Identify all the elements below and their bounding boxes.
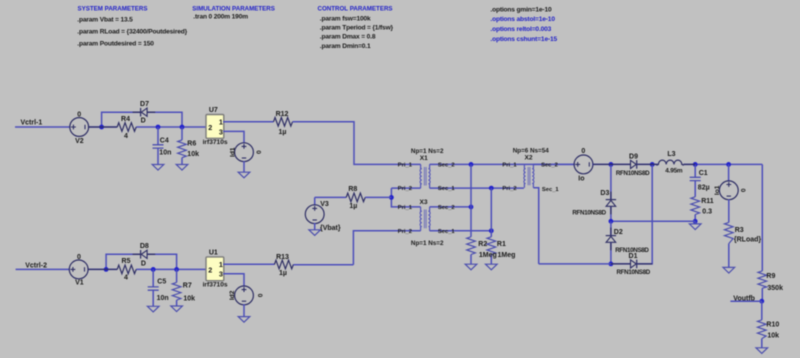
svg-text:R8: R8 (348, 186, 357, 193)
svg-text:1: 1 (219, 118, 223, 127)
svg-text:.options abstol=1e-10: .options abstol=1e-10 (490, 16, 555, 23)
svg-text:2: 2 (208, 123, 212, 132)
svg-text:CONTROL PARAMETERS: CONTROL PARAMETERS (318, 5, 393, 12)
svg-text:1Meg: 1Meg (479, 252, 497, 259)
svg-text:{RLoad}: {RLoad} (734, 237, 762, 244)
svg-text:Pri_2: Pri_2 (398, 186, 412, 192)
svg-text:R11: R11 (701, 198, 714, 205)
svg-text:X3: X3 (419, 199, 427, 206)
svg-text:.param Dmax = 0.8: .param Dmax = 0.8 (320, 34, 376, 41)
svg-text:U1: U1 (209, 250, 218, 257)
svg-text:Sec_2: Sec_2 (438, 163, 455, 169)
svg-text:Sec_1: Sec_1 (438, 186, 456, 192)
svg-text:0: 0 (257, 293, 264, 297)
svg-text:{Vbat}: {Vbat} (320, 225, 341, 232)
svg-text:10k: 10k (767, 332, 779, 339)
svg-text:3: 3 (219, 127, 223, 136)
svg-text:.options cshunt=1e-15: .options cshunt=1e-15 (490, 36, 557, 43)
svg-text:Pri_1: Pri_1 (398, 163, 413, 169)
svg-text:Sec_2: Sec_2 (438, 205, 455, 211)
svg-text:.param Tperiod = {1/fsw}: .param Tperiod = {1/fsw} (320, 24, 394, 31)
svg-text:R5: R5 (122, 258, 131, 265)
svg-text:R13: R13 (276, 254, 289, 261)
svg-text:SIMULATION PARAMETERS: SIMULATION PARAMETERS (192, 5, 275, 12)
svg-text:C1: C1 (699, 170, 708, 177)
svg-text:10k: 10k (187, 151, 199, 158)
svg-text:.param Dmin=0.1: .param Dmin=0.1 (320, 43, 371, 50)
svg-text:Sec_1: Sec_1 (542, 187, 560, 193)
svg-text:Np=6 Ns=54: Np=6 Ns=54 (513, 148, 550, 155)
svg-text:0: 0 (77, 112, 81, 119)
svg-text:Io1: Io1 (714, 185, 721, 195)
svg-text:10n: 10n (159, 150, 171, 157)
svg-text:R7: R7 (183, 282, 192, 289)
svg-text:R4: R4 (121, 116, 130, 123)
svg-text:4.95m: 4.95m (665, 167, 683, 174)
svg-text:R9: R9 (766, 273, 775, 280)
svg-text:RFN10NS8D: RFN10NS8D (572, 210, 606, 217)
svg-text:irf3710s: irf3710s (203, 139, 228, 146)
svg-text:Id1: Id1 (229, 147, 236, 157)
svg-text:350k: 350k (767, 285, 783, 292)
svg-text:Pri_1: Pri_1 (398, 205, 413, 211)
svg-text:R10: R10 (766, 321, 779, 328)
svg-text:D1: D1 (629, 253, 638, 260)
svg-text:U7: U7 (209, 107, 218, 114)
svg-text:D: D (141, 118, 146, 125)
svg-text:0: 0 (77, 254, 81, 261)
svg-text:Id2: Id2 (229, 290, 236, 300)
svg-text:1: 1 (219, 260, 223, 269)
svg-text:.param RLoad = {32400/Poutdesi: .param RLoad = {32400/Poutdesired} (77, 29, 187, 36)
svg-text:L3: L3 (667, 151, 675, 158)
svg-text:R12: R12 (276, 111, 289, 118)
svg-text:Pri_1: Pri_1 (502, 163, 517, 169)
svg-text:Np=1 Ns=2: Np=1 Ns=2 (411, 240, 444, 247)
svg-text:0.3: 0.3 (702, 208, 712, 215)
svg-text:4: 4 (124, 133, 128, 140)
svg-text:X2: X2 (524, 155, 532, 162)
svg-text:X1: X1 (420, 155, 428, 162)
svg-text:Vctrl-1: Vctrl-1 (21, 120, 43, 127)
svg-text:.param fsw=100k: .param fsw=100k (320, 15, 371, 22)
svg-text:D3: D3 (600, 190, 609, 197)
svg-text:10k: 10k (183, 296, 195, 303)
svg-text:irf3710s: irf3710s (203, 281, 228, 288)
svg-text:R6: R6 (187, 141, 196, 148)
svg-text:D9: D9 (629, 154, 638, 161)
svg-text:V1: V1 (75, 280, 84, 287)
svg-text:Voutfb: Voutfb (733, 295, 755, 302)
svg-text:Np=1 Ns=2: Np=1 Ns=2 (411, 148, 444, 155)
svg-text:SYSTEM PARAMETERS: SYSTEM PARAMETERS (78, 5, 148, 12)
svg-text:Sec_1: Sec_1 (438, 229, 456, 235)
svg-text:Io: Io (578, 175, 584, 182)
svg-text:Sec_2: Sec_2 (541, 163, 558, 169)
svg-text:.param Vbat = 13.5: .param Vbat = 13.5 (77, 17, 133, 24)
svg-text:R3: R3 (735, 227, 744, 234)
svg-text:C4: C4 (160, 138, 169, 145)
svg-text:1µ: 1µ (279, 270, 287, 277)
svg-text:RFN10NS8D: RFN10NS8D (616, 170, 650, 177)
svg-text:C5: C5 (157, 279, 166, 286)
svg-text:.options gmin=1e-10: .options gmin=1e-10 (490, 7, 552, 14)
svg-text:0: 0 (256, 150, 263, 154)
svg-text:0: 0 (741, 188, 748, 192)
svg-text:R1: R1 (497, 241, 506, 248)
svg-text:1Meg: 1Meg (498, 252, 516, 259)
svg-text:1µ: 1µ (279, 129, 287, 136)
svg-text:4: 4 (124, 274, 128, 281)
svg-text:Pri_2: Pri_2 (398, 229, 412, 235)
svg-text:V3: V3 (320, 201, 329, 208)
svg-text:1µ: 1µ (349, 203, 357, 210)
svg-text:V2: V2 (75, 138, 84, 145)
svg-text:0: 0 (581, 148, 585, 155)
svg-text:82µ: 82µ (698, 185, 710, 192)
svg-text:.tran 0 200m 190m: .tran 0 200m 190m (193, 14, 248, 21)
svg-text:.options reltol=0.003: .options reltol=0.003 (490, 26, 551, 33)
svg-text:10n: 10n (157, 295, 169, 302)
svg-text:.param Poutdesired = 150: .param Poutdesired = 150 (77, 41, 154, 48)
svg-text:R2: R2 (478, 241, 487, 248)
svg-text:D: D (141, 260, 146, 267)
svg-text:2: 2 (208, 265, 212, 274)
svg-text:Vctrl-2: Vctrl-2 (25, 263, 47, 270)
svg-text:D8: D8 (140, 243, 149, 250)
svg-text:Pri_2: Pri_2 (502, 186, 516, 192)
svg-text:3: 3 (219, 270, 223, 279)
svg-text:RFN10NS8D: RFN10NS8D (617, 269, 651, 276)
svg-text:D7: D7 (140, 101, 149, 108)
svg-text:D2: D2 (614, 229, 623, 236)
